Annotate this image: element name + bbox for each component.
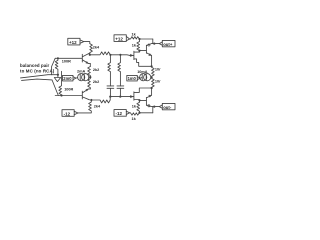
resistor R3 2k4 (90, 44, 93, 55)
svg-text:1k: 1k (132, 105, 137, 109)
wire input- dropper (52, 80, 58, 96)
node tail (89, 76, 91, 78)
svg-text:2k2: 2k2 (93, 68, 99, 72)
svg-text:out+: out+ (163, 42, 173, 47)
resistor R9 (emitter degeneration top) (88, 67, 91, 78)
resistor R7 (horizontal bottom interstage) (91, 97, 120, 103)
svg-text:2m0: 2m0 (63, 76, 72, 81)
wire Q4 base (140, 99, 147, 101)
power tag -12 (mid) (114, 110, 130, 117)
node J2 source Q4 base (138, 99, 140, 101)
resistor R16 1k (bottom rail) (130, 113, 153, 115)
svg-text:1k: 1k (132, 117, 137, 121)
ground (54, 75, 60, 82)
svg-text:10mA: 10mA (137, 70, 148, 74)
transistor Q4 (NPN out bottom) (145, 97, 147, 105)
current source CS1 2mA (76, 77, 78, 80)
svg-text:balanced pair: balanced pair (20, 63, 50, 68)
resistor R1 100R (55, 58, 58, 74)
wire rail to J1 gate (120, 54, 129, 57)
current source tag (left) (63, 75, 77, 81)
wire Q1 emitter to chain (89, 64, 91, 67)
svg-text:+12: +12 (69, 40, 77, 45)
wire out- (153, 107, 160, 113)
JFET J1 (top) (133, 51, 135, 59)
resistor R8 2k4 (bottom load) (78, 100, 91, 113)
resistor R6 + capacitor C2 (dropper 2) (118, 55, 121, 86)
svg-text:1k: 1k (132, 43, 137, 47)
node rail R12 (138, 38, 140, 40)
resistor R15 1k vertical bottom (137, 100, 140, 112)
current source tag (right) (127, 75, 141, 81)
svg-text:100R: 100R (62, 59, 71, 63)
wire input+ riser (52, 58, 56, 74)
node Q3 emitter (151, 65, 153, 67)
node rail dropper2b (119, 96, 121, 98)
node R1 top (57, 57, 59, 59)
svg-text:2k2: 2k2 (93, 80, 99, 84)
resistor R2 100R (bottom input) (59, 71, 62, 95)
wire Q3 base (140, 50, 147, 52)
tag out- (159, 103, 175, 110)
transistor Q2 (NPN input bottom) (81, 91, 83, 99)
power tag +12 (mid) (114, 35, 130, 42)
tag out+ (159, 40, 175, 47)
svg-text:2k4: 2k4 (94, 105, 101, 109)
svg-text:10r: 10r (155, 68, 161, 72)
node out+ (153, 43, 155, 45)
resistor R13 10r (152, 66, 155, 77)
node Q2 collector (90, 99, 92, 101)
svg-text:100R: 100R (64, 88, 73, 92)
node input+ (57, 74, 59, 76)
svg-text:+12: +12 (115, 36, 123, 41)
resistor R12 1k vertical (137, 39, 140, 51)
wire rail to J2 gate (120, 96, 130, 98)
svg-text:-12: -12 (116, 111, 123, 116)
node rail dropper1b (109, 96, 111, 98)
node Q1 collector (89, 54, 91, 56)
node rail dropper2 (119, 54, 121, 56)
resistor R10 (emitter degeneration bottom) (88, 77, 91, 89)
pin mark Q3 (148, 44, 150, 46)
resistor R14 10r (152, 77, 155, 88)
resistor R4 (horizontal top interstage) (90, 52, 121, 55)
power tag -12 (left) (62, 110, 78, 117)
node mid 10r (151, 76, 153, 78)
svg-text:1k: 1k (132, 33, 137, 37)
wire input+ (21, 75, 58, 78)
pin mark Q4 (148, 105, 150, 107)
wire Q1 base (55, 57, 82, 59)
node R2 bottom (60, 94, 62, 96)
wire out+ (153, 39, 160, 44)
wire input- (22, 79, 53, 80)
resistor R11 1k (top rail) (130, 37, 153, 39)
resistor R5 + capacitor C1 (dropper 1) (108, 55, 111, 86)
svg-text:-12: -12 (64, 111, 71, 116)
svg-text:1m0: 1m0 (128, 76, 137, 81)
current source CS2 10mA (140, 77, 141, 80)
annotation: balanced pair to MC (no RCA) (20, 63, 55, 74)
node J1 drain Q3 base (138, 50, 140, 52)
transistor Q1 (NPN input top) (81, 54, 83, 62)
svg-text:10r: 10r (155, 80, 161, 84)
svg-text:2mA: 2mA (77, 69, 85, 73)
node Q4 emitter (151, 87, 153, 89)
node rail R15 (138, 112, 140, 114)
power tag +12 (left) (68, 38, 84, 45)
svg-text:out-: out- (163, 105, 172, 110)
node out- (153, 106, 155, 108)
wire +12 to R3 (84, 42, 90, 44)
svg-text:2k4: 2k4 (93, 45, 100, 49)
transistor Q3 (NPN out top) (145, 45, 147, 53)
svg-text:to MC (no RCA): to MC (no RCA) (20, 69, 55, 74)
JFET J2 (bottom) (133, 92, 135, 100)
node rail dropper1 (109, 54, 111, 56)
wire Q2 base (55, 95, 82, 97)
